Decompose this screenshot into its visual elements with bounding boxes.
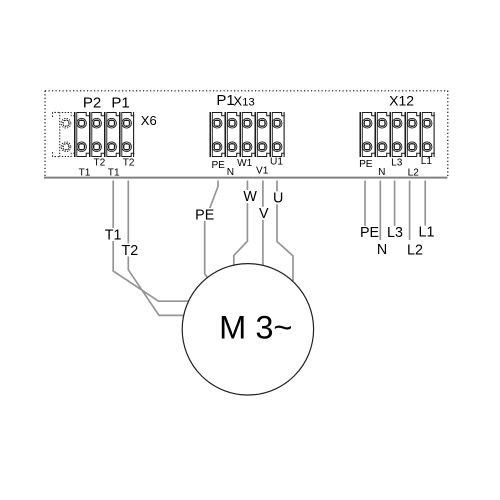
svg-text:PE: PE (359, 159, 373, 170)
net label N (376, 243, 389, 256)
svg-text:W: W (243, 189, 257, 205)
wire W (X13:3 to motor) (234, 181, 248, 268)
terminal strip X6 ghost terminal (continuation) (60, 112, 74, 157)
wire V (X13:4 to motor) (262, 181, 264, 268)
net label T1 (104, 228, 123, 241)
motor M 3~ (182, 264, 313, 395)
svg-text:X13: X13 (233, 93, 254, 108)
net label V (258, 207, 271, 220)
svg-text:L3: L3 (391, 158, 403, 169)
wire T1 (X6:3 to motor) (113, 181, 189, 302)
wire T2 (X6:4 to motor) (128, 181, 185, 316)
wire U (X13:5 to motor) (277, 181, 293, 282)
svg-text:PE: PE (360, 225, 379, 241)
svg-text:L2: L2 (408, 167, 420, 178)
svg-text:L1: L1 (421, 156, 433, 167)
svg-text:N: N (378, 167, 385, 178)
svg-text:L2: L2 (407, 243, 423, 259)
net label L2 (406, 244, 426, 257)
svg-text:N: N (377, 242, 387, 258)
svg-text:L3: L3 (387, 225, 403, 241)
net label W (243, 190, 259, 203)
terminal strip X12 right end wall (433, 112, 435, 157)
terminal strip X13 terminal 1 (210, 112, 224, 157)
svg-text:W1: W1 (237, 158, 253, 169)
net label PE (motor) (195, 208, 216, 221)
wire PE (X12:1) (364, 181, 366, 227)
svg-text:M 3~: M 3~ (219, 309, 292, 346)
svg-text:V: V (259, 206, 269, 222)
svg-text:L1: L1 (419, 225, 435, 241)
svg-text:N: N (227, 167, 234, 178)
net label T2 (121, 244, 140, 257)
svg-text:T2: T2 (94, 158, 106, 169)
terminal strip X12 terminal 5 (420, 112, 434, 157)
terminal strip X6 terminal 3 (105, 112, 119, 157)
terminal strip X12 terminal 4 (405, 112, 419, 157)
svg-text:T1: T1 (79, 168, 91, 179)
svg-text:PE: PE (195, 207, 214, 223)
terminal strip X13 terminal 2 (225, 112, 239, 157)
svg-text:T2: T2 (123, 158, 135, 169)
terminal strip X6 terminal 1 (75, 112, 89, 157)
enclosure dashed border (top, left, right) (45, 91, 448, 177)
svg-text:P1: P1 (111, 95, 129, 112)
svg-text:V1: V1 (256, 165, 269, 176)
svg-text:T1: T1 (105, 228, 122, 244)
svg-text:U: U (273, 191, 283, 207)
enclosure bottom edge (solid) (44, 177, 448, 179)
svg-text:T1: T1 (108, 168, 120, 179)
terminal strip X6 terminal 4 (120, 112, 134, 157)
svg-text:U1: U1 (270, 157, 283, 168)
terminal strip X13 terminal 4 (255, 112, 269, 157)
terminal strip X13 terminal 5 (270, 112, 284, 157)
terminal strip X12 terminal 1 (360, 112, 374, 157)
wire L2 (X12:4) (409, 181, 411, 241)
wire L1 (X12:5) (424, 181, 426, 226)
svg-text:T2: T2 (122, 243, 139, 259)
svg-text:P1: P1 (216, 92, 234, 109)
terminal strip X12 terminal 2 (375, 112, 389, 157)
svg-text:PE: PE (211, 160, 225, 171)
terminal strip X13 right end wall (283, 112, 285, 157)
terminal strip X12 terminal 3 (390, 112, 404, 157)
wire L3 (X12:3) (394, 181, 396, 227)
svg-text:P2: P2 (83, 95, 101, 112)
terminal strip X6 terminal 2 (90, 112, 104, 157)
terminal strip X13 terminal 3 (240, 112, 254, 157)
net label U (273, 191, 285, 204)
svg-text:X12: X12 (389, 92, 414, 108)
wire N (X12:2) (379, 181, 381, 241)
terminal strip X6 right end wall (133, 112, 135, 157)
wire PE (X13:1 to motor) (205, 181, 218, 282)
svg-text:X6: X6 (141, 113, 157, 128)
